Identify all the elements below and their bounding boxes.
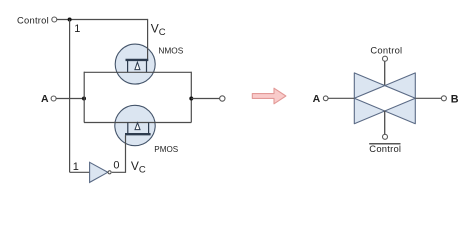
terminal control input: [52, 17, 57, 22]
PMOS substrate arrow: [135, 123, 140, 130]
svg-text:0: 0: [113, 160, 119, 172]
transistor Q1 NMOS body: [115, 44, 155, 84]
terminal A right: [323, 96, 328, 101]
wire control top horizontal: [57, 19, 148, 21]
wire gate control top: [384, 61, 386, 85]
svg-text:NMOS: NMOS: [158, 46, 183, 56]
wire gate control bottom: [384, 111, 386, 135]
NMOS drain leg: [146, 61, 148, 72]
overline for inverted Control: [369, 143, 400, 145]
wire A to gate: [328, 97, 354, 99]
wire NMOS gate drop: [147, 19, 149, 61]
wire inverter input: [70, 171, 90, 173]
PMOS gate bar: [125, 133, 151, 135]
terminal B: [441, 96, 446, 101]
svg-text:Control: Control: [17, 15, 49, 26]
terminal output: [220, 96, 225, 101]
junction control node: [68, 18, 72, 22]
svg-text:Control: Control: [369, 143, 401, 154]
wire gate to B: [415, 97, 441, 99]
wire control rail down to inverter: [69, 20, 71, 173]
wire output: [191, 98, 219, 100]
transmission gate TG1 bowtie: [354, 73, 415, 124]
inverter U1 triangle: [90, 162, 108, 182]
wire bottom branch through PMOS: [84, 122, 191, 124]
transistor Q2 PMOS body: [115, 105, 155, 145]
NMOS substrate arrow: [135, 62, 140, 69]
terminal A: [51, 96, 56, 101]
wire left rail: [83, 72, 85, 123]
NMOS gate bar: [126, 59, 149, 61]
NMOS source leg: [127, 61, 129, 72]
inverter U1 bubble: [108, 171, 111, 174]
svg-text:B: B: [451, 93, 459, 105]
terminal gate control top: [383, 56, 388, 61]
wire right rail: [190, 72, 192, 123]
wire A to left rail: [56, 98, 84, 100]
svg-text:1: 1: [73, 161, 79, 173]
junction right rail: [189, 97, 193, 101]
junction left rail: [82, 97, 86, 101]
svg-text:Control: Control: [370, 45, 402, 56]
PMOS source leg: [127, 123, 129, 134]
svg-text:PMOS: PMOS: [154, 145, 178, 154]
svg-text:A: A: [41, 93, 49, 105]
svg-text:1: 1: [74, 23, 80, 35]
PMOS drain leg: [148, 123, 150, 134]
arrow equivalence (pink block arrow): [252, 88, 286, 104]
wire top branch through NMOS: [84, 71, 191, 73]
svg-text:A: A: [313, 93, 321, 105]
terminal gate control bottom: [383, 134, 388, 139]
wire PMOS gate drop to inverter output: [112, 135, 126, 172]
